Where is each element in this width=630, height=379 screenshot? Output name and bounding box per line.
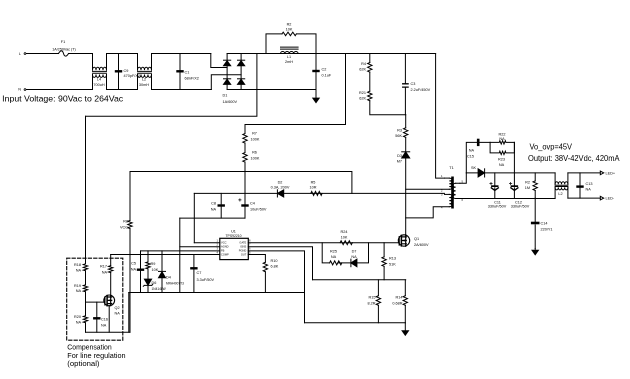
source line	[313, 279, 406, 281]
wire DC+ rail	[227, 53, 436, 55]
wire R6 bottom to VCC line	[244, 162, 246, 193]
IC U1	[220, 238, 249, 259]
wire R3 to D3	[405, 137, 407, 151]
wire OVP to output line	[513, 142, 515, 173]
wire fuse to choke L4	[69, 53, 93, 55]
svg-text:R23: R23	[498, 158, 505, 162]
svg-text:(optional): (optional)	[67, 359, 100, 368]
resistor R18	[83, 264, 87, 271]
svg-text:ISNS: ISNS	[240, 245, 246, 249]
svg-text:68nF/X2: 68nF/X2	[185, 77, 199, 81]
svg-text:OUT: OUT	[241, 253, 247, 257]
pin COMP wire	[111, 254, 220, 256]
wire bottom rail L4 to L2	[107, 89, 138, 91]
svg-text:700uH: 700uH	[93, 83, 104, 87]
capacitor C2	[315, 54, 317, 90]
wire DC+ sense drop to comp line	[86, 54, 257, 117]
svg-text:1M: 1M	[525, 186, 530, 190]
svg-text:10uF/50V: 10uF/50V	[250, 208, 267, 212]
output choke L3	[554, 173, 556, 184]
gate line	[248, 242, 398, 244]
wire top rail L4 to L2	[107, 53, 138, 55]
svg-text:LED-: LED-	[606, 197, 615, 201]
svg-text:FB: FB	[221, 249, 225, 253]
svg-text:NA: NA	[101, 324, 107, 328]
svg-text:R2: R2	[525, 180, 530, 184]
capacitor C3	[404, 54, 406, 115]
capacitor C11 electrolytic	[494, 173, 496, 198]
svg-text:NA: NA	[351, 255, 357, 259]
wire R7 to R6	[244, 143, 246, 152]
svg-text:R18: R18	[74, 263, 81, 267]
resistor R17	[110, 255, 112, 266]
common-mode choke L4	[92, 54, 94, 71]
svg-text:10K: 10K	[341, 236, 348, 240]
resistor R5	[311, 191, 322, 195]
wire top rail L2 to bridge	[152, 53, 211, 55]
svg-text:NA: NA	[331, 255, 337, 259]
svg-text:0.1uF: 0.1uF	[322, 74, 332, 78]
wire N rail	[27, 89, 93, 91]
svg-text:R9: R9	[151, 262, 156, 266]
svg-text:220/Y1: 220/Y1	[541, 228, 553, 232]
svg-text:D2: D2	[278, 180, 283, 184]
svg-text:C9: C9	[124, 69, 129, 73]
svg-text:330uF/50V: 330uF/50V	[488, 205, 507, 209]
svg-text:VCC: VCC	[221, 240, 227, 244]
resistor R7	[244, 125, 246, 134]
capacitor C15	[466, 142, 490, 173]
svg-text:10K: 10K	[152, 268, 159, 272]
diode D3	[402, 151, 410, 153]
svg-text:R3: R3	[397, 129, 402, 133]
svg-text:NA: NA	[76, 269, 82, 273]
svg-text:COMP: COMP	[221, 253, 229, 257]
svg-text:2mH: 2mH	[285, 60, 293, 64]
svg-text:2.2uF/450V: 2.2uF/450V	[411, 88, 431, 92]
svg-text:AGND: AGND	[221, 245, 229, 249]
resistor R21	[368, 91, 372, 101]
svg-text:Q2: Q2	[115, 306, 120, 310]
svg-text:R21: R21	[359, 91, 366, 95]
gate parallel loop	[322, 243, 368, 263]
svg-text:62K: 62K	[359, 68, 366, 72]
wire comp sense riser to box	[85, 116, 87, 263]
dashed compensation box	[67, 258, 123, 340]
svg-text:C5: C5	[131, 262, 136, 266]
comp box bottom bus	[86, 331, 131, 333]
capacitor C5	[140, 251, 142, 293]
svg-text:D7: D7	[352, 250, 357, 254]
svg-text:L1: L1	[287, 55, 291, 59]
resistor R22	[490, 141, 514, 144]
svg-text:NA: NA	[102, 271, 108, 275]
svg-text:1N4148W: 1N4148W	[152, 287, 166, 291]
ground arrow primary power	[404, 323, 406, 331]
svg-text:C4: C4	[250, 202, 255, 206]
svg-text:LED+: LED+	[606, 172, 616, 176]
svg-text:L2: L2	[142, 78, 146, 82]
wire DC+ to transformer primary	[436, 54, 445, 179]
svg-text:GATE: GATE	[239, 240, 246, 244]
svg-text:C1: C1	[185, 71, 190, 75]
agnd bus	[129, 292, 305, 294]
zener D6	[144, 279, 151, 285]
terminal L	[24, 53, 26, 55]
wire D3 to drain	[405, 158, 407, 235]
svg-text:100K: 100K	[251, 157, 260, 161]
wire R4 to R21	[369, 72, 371, 91]
svg-text:56K: 56K	[395, 134, 402, 138]
svg-text:R22: R22	[499, 132, 506, 136]
vcc line	[194, 192, 444, 194]
svg-text:10R: 10R	[310, 185, 317, 189]
svg-text:NA: NA	[211, 208, 217, 212]
resistor R14	[404, 280, 406, 296]
diode D8 SK	[478, 169, 485, 177]
svg-text:R20: R20	[74, 315, 81, 319]
mosfet Q1	[398, 235, 409, 246]
ground arrow secondary	[532, 249, 538, 255]
svg-text:NA: NA	[499, 163, 505, 167]
svg-text:MRA4007T3: MRA4007T3	[166, 282, 184, 286]
resistor R13	[383, 243, 385, 257]
ground arrow primary input	[315, 90, 317, 99]
pin AGND wire	[180, 246, 220, 248]
resistor R9	[147, 251, 149, 262]
svg-text:C2: C2	[322, 68, 327, 72]
mosfet Q2	[104, 295, 115, 306]
resistor R8	[129, 172, 131, 221]
wire startup line	[130, 172, 352, 194]
diode D2	[277, 190, 283, 197]
svg-text:D1: D1	[223, 94, 228, 98]
resistor R10	[263, 262, 267, 272]
svg-text:R17: R17	[100, 265, 107, 269]
pin FB wire	[141, 250, 220, 252]
wire DC+ drop to R7 feed line	[245, 54, 346, 125]
svg-text:Q1: Q1	[414, 237, 419, 241]
resistor R3	[405, 115, 407, 128]
svg-text:R2: R2	[287, 23, 292, 27]
svg-text:10K: 10K	[286, 27, 293, 31]
svg-text:R19: R19	[74, 284, 81, 288]
fuse F1	[59, 51, 69, 56]
wire secondary bottom bus	[460, 198, 555, 200]
svg-text:NA: NA	[469, 149, 475, 153]
svg-text:C3: C3	[411, 82, 416, 86]
diode D7	[351, 259, 357, 267]
svg-text:NA: NA	[76, 321, 82, 325]
svg-text:L: L	[19, 52, 21, 56]
wire secondary top to rectifier	[460, 173, 466, 183]
common-mode choke L2	[137, 54, 139, 71]
svg-text:C13: C13	[586, 182, 593, 186]
svg-text:C8: C8	[211, 202, 216, 206]
svg-text:NA: NA	[499, 137, 505, 141]
svg-text:8.2R: 8.2R	[367, 302, 375, 306]
capacitor C7	[193, 255, 195, 293]
svg-text:330uF/50V: 330uF/50V	[511, 205, 530, 209]
svg-text:3.3uF/50V: 3.3uF/50V	[197, 278, 215, 282]
bridge rectifier D1	[226, 54, 228, 90]
svg-text:R14: R14	[396, 296, 403, 300]
svg-text:L4: L4	[97, 78, 101, 82]
svg-text:R7: R7	[252, 132, 257, 136]
svg-text:Input Voltage: 90Vac to 264Vac: Input Voltage: 90Vac to 264Vac	[2, 94, 124, 104]
capacitor C16	[96, 302, 98, 332]
terminal LED-	[600, 196, 603, 200]
wire R21 bottom to clamp line	[370, 101, 406, 115]
svg-text:1A/600V: 1A/600V	[223, 100, 238, 104]
svg-text:62K: 62K	[359, 97, 366, 101]
svg-text:30mH: 30mH	[139, 83, 149, 87]
svg-text:TPS92210: TPS92210	[225, 234, 241, 238]
svg-text:Vo_ovp=45V: Vo_ovp=45V	[530, 143, 573, 152]
svg-text:C7: C7	[197, 271, 202, 275]
capacitor C9	[118, 54, 120, 90]
svg-text:NA: NA	[76, 289, 82, 293]
svg-text:R13: R13	[389, 257, 396, 261]
svg-text:L2: L2	[558, 192, 562, 196]
svg-text:R8: R8	[123, 220, 128, 224]
svg-text:51K: 51K	[389, 263, 396, 267]
svg-text:C14: C14	[541, 222, 548, 226]
wire C8 C4 ground line	[180, 217, 245, 219]
resistor R24	[340, 241, 352, 245]
svg-text:NA: NA	[115, 312, 121, 316]
transformer T1	[451, 177, 454, 209]
svg-text:0.3A, 200V: 0.3A, 200V	[271, 185, 290, 189]
svg-text:470pF/X2: 470pF/X2	[124, 74, 140, 78]
svg-text:F1: F1	[61, 40, 65, 44]
svg-text:C16: C16	[101, 318, 108, 322]
agnd riser	[179, 218, 181, 292]
svg-text:0.68R: 0.68R	[392, 302, 402, 306]
pgnd pin wire	[248, 251, 304, 323]
svg-text:R6: R6	[252, 151, 257, 155]
vcc pin riser	[193, 193, 195, 242]
svg-text:1A/250Vac (T): 1A/250Vac (T)	[52, 47, 76, 51]
wire to LED-	[568, 197, 600, 199]
svg-text:T1: T1	[449, 166, 453, 170]
resistor R4	[369, 54, 371, 63]
wire secondary output line	[466, 172, 555, 174]
svg-text:6.8K: 6.8K	[271, 265, 279, 269]
capacitor C13	[579, 173, 581, 198]
svg-text:VCC: VCC	[120, 226, 128, 230]
resistor R6	[243, 153, 247, 163]
capacitor C14	[534, 198, 536, 248]
svg-text:R5: R5	[311, 180, 316, 184]
svg-text:SK: SK	[471, 166, 477, 170]
wire vcc gap for D2 R5	[0, 0, 2, 2]
resistor R2	[266, 34, 282, 54]
svg-text:100K: 100K	[251, 138, 260, 142]
resistor R15	[377, 280, 379, 296]
capacitor C8	[220, 193, 222, 218]
terminal LED+	[600, 171, 603, 175]
terminal N	[24, 89, 26, 91]
svg-text:PGND: PGND	[239, 249, 247, 253]
power ground bus	[305, 322, 406, 324]
svg-text:R25: R25	[330, 250, 337, 254]
out pin wire	[248, 255, 265, 263]
wire to LED+	[568, 172, 600, 174]
resistor R20	[83, 316, 87, 323]
svg-text:2A/600V: 2A/600V	[414, 243, 429, 247]
wire N input to bridge AC2	[211, 75, 241, 90]
wire bottom rail L2 to N riser	[152, 89, 212, 91]
capacitor C4	[244, 193, 246, 218]
svg-text:D3: D3	[397, 154, 402, 158]
svg-text:D4: D4	[166, 276, 171, 280]
wire L input to bridge AC1	[211, 54, 227, 68]
inductor L1	[281, 52, 299, 54]
svg-text:N: N	[18, 87, 21, 91]
wire DC- line	[227, 89, 316, 91]
svg-text:R15: R15	[369, 296, 376, 300]
isns pin wire	[248, 247, 312, 280]
svg-text:NA: NA	[131, 268, 137, 272]
resistor R19	[83, 285, 87, 292]
capacitor C1	[179, 54, 181, 90]
resistor R25	[330, 261, 342, 265]
svg-text:R24: R24	[341, 230, 348, 234]
svg-text:R4: R4	[361, 62, 366, 66]
resistor R23	[490, 142, 514, 154]
resistor R2 output 1M	[534, 173, 536, 181]
capacitor C12 electrolytic	[513, 173, 515, 198]
svg-text:C15: C15	[467, 155, 474, 159]
svg-text:Output: 38V-42Vdc, 420mA: Output: 38V-42Vdc, 420mA	[528, 154, 620, 163]
pin VCC wire	[194, 242, 220, 244]
diode D4	[161, 251, 163, 272]
svg-text:R10: R10	[271, 259, 278, 263]
svg-text:M7: M7	[397, 160, 402, 164]
svg-text:D6: D6	[152, 281, 157, 285]
svg-text:NA: NA	[586, 187, 592, 191]
wire L to fuse	[27, 53, 59, 55]
